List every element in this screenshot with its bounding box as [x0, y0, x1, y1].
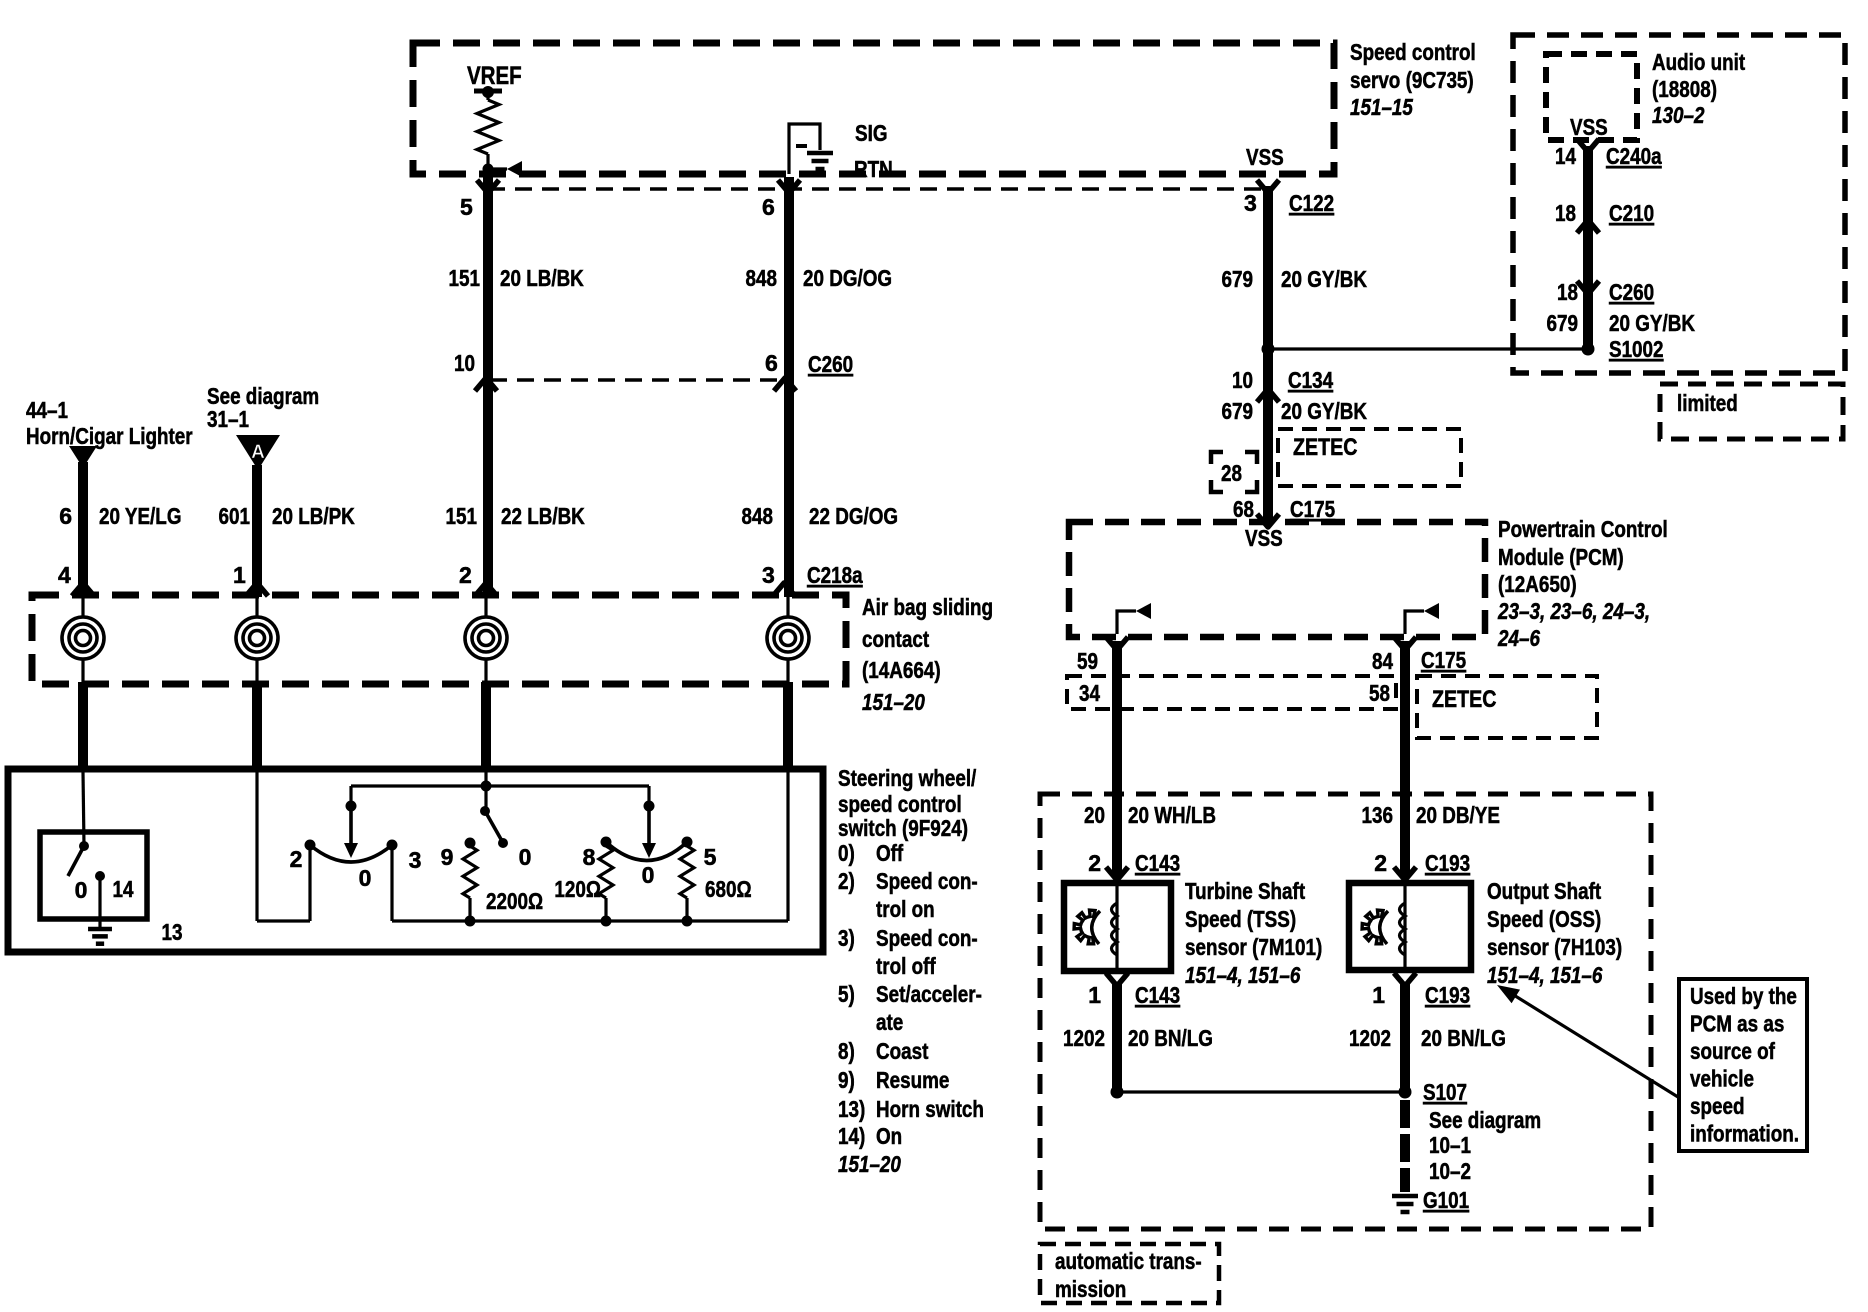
svg-text:Speed control: Speed control: [1350, 39, 1476, 65]
svg-text:1202: 1202: [1349, 1025, 1391, 1051]
svg-text:sensor (7M101): sensor (7M101): [1185, 934, 1322, 960]
svg-text:mission: mission: [1055, 1276, 1126, 1302]
svg-text:9: 9: [441, 844, 454, 870]
svg-text:A: A: [251, 442, 265, 463]
svg-text:Speed con-: Speed con-: [876, 925, 978, 951]
svg-text:vehicle: vehicle: [1690, 1066, 1754, 1092]
svg-text:1: 1: [1088, 982, 1101, 1008]
svg-text:2200Ω: 2200Ω: [486, 888, 543, 914]
svg-text:22 DG/OG: 22 DG/OG: [809, 503, 898, 529]
svg-text:23–3, 23–6, 24–3,: 23–3, 23–6, 24–3,: [1497, 598, 1650, 624]
svg-text:679: 679: [1547, 310, 1579, 336]
svg-text:(14A664): (14A664): [862, 657, 941, 683]
svg-text:C175: C175: [1290, 496, 1335, 522]
svg-text:3: 3: [1244, 190, 1257, 216]
svg-text:13: 13: [162, 919, 183, 945]
svg-text:C143: C143: [1135, 982, 1180, 1008]
svg-text:Turbine Shaft: Turbine Shaft: [1185, 878, 1305, 904]
svg-text:10–1: 10–1: [1429, 1132, 1471, 1158]
svg-text:ZETEC: ZETEC: [1432, 686, 1497, 713]
svg-text:0: 0: [642, 862, 655, 888]
svg-text:speed control: speed control: [838, 791, 962, 817]
svg-text:3: 3: [762, 562, 775, 588]
svg-text:trol off: trol off: [876, 953, 936, 979]
svg-text:22 LB/BK: 22 LB/BK: [501, 503, 585, 529]
svg-text:S1002: S1002: [1609, 336, 1664, 362]
svg-text:(12A650): (12A650): [1498, 571, 1577, 597]
svg-text:Horn/Cigar Lighter: Horn/Cigar Lighter: [26, 423, 193, 449]
svg-text:2: 2: [1088, 850, 1101, 876]
svg-text:18: 18: [1555, 200, 1576, 226]
svg-text:VREF: VREF: [467, 62, 522, 90]
svg-text:C193: C193: [1425, 850, 1470, 876]
svg-text:848: 848: [742, 503, 774, 529]
svg-text:151–4, 151–6: 151–4, 151–6: [1487, 962, 1603, 988]
svg-text:84: 84: [1372, 648, 1393, 674]
svg-text:Set/acceler-: Set/acceler-: [876, 981, 982, 1007]
svg-text:5: 5: [460, 194, 473, 220]
svg-text:151: 151: [449, 265, 481, 291]
svg-text:0: 0: [359, 865, 372, 891]
svg-text:8): 8): [838, 1038, 855, 1064]
svg-text:20 GY/BK: 20 GY/BK: [1281, 398, 1367, 424]
svg-text:13): 13): [838, 1096, 865, 1122]
svg-text:Air bag sliding: Air bag sliding: [862, 594, 993, 620]
svg-text:6: 6: [765, 350, 778, 376]
svg-text:120Ω: 120Ω: [554, 876, 601, 902]
svg-text:(18808): (18808): [1652, 76, 1717, 102]
svg-text:20 GY/BK: 20 GY/BK: [1281, 266, 1367, 292]
svg-text:679: 679: [1222, 398, 1254, 424]
svg-text:3): 3): [838, 925, 855, 951]
svg-text:5): 5): [838, 981, 855, 1007]
svg-text:0): 0): [838, 840, 855, 866]
svg-text:Used by the: Used by the: [1690, 983, 1797, 1009]
svg-text:C260: C260: [1609, 279, 1654, 305]
svg-text:20 DG/OG: 20 DG/OG: [803, 265, 892, 291]
svg-text:source of: source of: [1690, 1038, 1775, 1064]
svg-text:S107: S107: [1423, 1079, 1467, 1105]
svg-text:20 LB/PK: 20 LB/PK: [272, 503, 355, 529]
svg-text:C122: C122: [1289, 190, 1334, 216]
svg-text:31–1: 31–1: [207, 406, 249, 432]
svg-text:14: 14: [1555, 143, 1576, 169]
svg-text:10: 10: [1232, 367, 1253, 393]
svg-text:1: 1: [233, 562, 246, 588]
svg-text:On: On: [876, 1123, 902, 1149]
svg-text:switch (9F924): switch (9F924): [838, 815, 968, 841]
svg-text:44–1: 44–1: [26, 397, 68, 423]
svg-text:151–20: 151–20: [838, 1151, 901, 1177]
svg-text:servo (9C735): servo (9C735): [1350, 67, 1474, 93]
svg-text:C210: C210: [1609, 200, 1654, 226]
svg-text:trol on: trol on: [876, 896, 935, 922]
svg-text:automatic trans-: automatic trans-: [1055, 1248, 1202, 1274]
svg-text:See diagram: See diagram: [1429, 1107, 1541, 1133]
svg-text:151–4, 151–6: 151–4, 151–6: [1185, 962, 1301, 988]
svg-text:Audio unit: Audio unit: [1652, 49, 1745, 75]
svg-text:4: 4: [58, 562, 71, 588]
svg-text:limited: limited: [1677, 390, 1738, 416]
svg-text:contact: contact: [862, 626, 929, 652]
svg-text:G101: G101: [1423, 1187, 1469, 1213]
svg-text:14: 14: [113, 876, 134, 902]
svg-text:Output Shaft: Output Shaft: [1487, 878, 1601, 904]
svg-text:ate: ate: [876, 1009, 903, 1035]
svg-text:1: 1: [1372, 982, 1385, 1008]
svg-text:20: 20: [1084, 802, 1105, 828]
svg-text:20 BN/LG: 20 BN/LG: [1421, 1025, 1506, 1051]
svg-text:24–6: 24–6: [1497, 625, 1540, 651]
svg-text:59: 59: [1077, 648, 1098, 674]
svg-text:ZETEC: ZETEC: [1293, 434, 1358, 461]
svg-text:Powertrain Control: Powertrain Control: [1498, 516, 1668, 542]
svg-text:Resume: Resume: [876, 1067, 949, 1093]
svg-text:151–20: 151–20: [862, 689, 925, 715]
svg-text:C240a: C240a: [1606, 143, 1662, 169]
svg-text:Coast: Coast: [876, 1038, 929, 1064]
svg-text:34: 34: [1079, 680, 1100, 706]
svg-text:14): 14): [838, 1123, 865, 1149]
svg-text:2): 2): [838, 868, 855, 894]
svg-text:20 DB/YE: 20 DB/YE: [1416, 802, 1500, 828]
svg-text:speed: speed: [1690, 1093, 1745, 1119]
svg-text:C175: C175: [1421, 647, 1466, 673]
svg-text:2: 2: [1374, 850, 1387, 876]
svg-text:6: 6: [762, 194, 775, 220]
svg-text:136: 136: [1362, 802, 1394, 828]
svg-text:sensor (7H103): sensor (7H103): [1487, 934, 1622, 960]
svg-text:5: 5: [704, 844, 717, 870]
svg-text:SIG: SIG: [855, 120, 888, 146]
svg-text:10: 10: [454, 350, 475, 376]
svg-text:RTN: RTN: [854, 156, 893, 182]
svg-text:0: 0: [75, 877, 88, 903]
svg-text:C260: C260: [808, 351, 853, 377]
svg-text:Speed (TSS): Speed (TSS): [1185, 906, 1296, 932]
svg-text:9): 9): [838, 1067, 855, 1093]
svg-text:601: 601: [219, 503, 251, 529]
svg-text:PCM as as: PCM as as: [1690, 1011, 1784, 1037]
svg-text:2: 2: [290, 846, 303, 872]
svg-text:Speed (OSS): Speed (OSS): [1487, 906, 1601, 932]
svg-text:68: 68: [1233, 496, 1254, 522]
svg-text:3: 3: [409, 847, 422, 873]
svg-text:information.: information.: [1690, 1121, 1799, 1147]
svg-text:28: 28: [1221, 460, 1242, 486]
svg-text:C134: C134: [1288, 367, 1333, 393]
svg-text:Module (PCM): Module (PCM): [1498, 544, 1624, 570]
svg-text:Off: Off: [876, 840, 903, 866]
svg-text:Speed con-: Speed con-: [876, 868, 978, 894]
svg-text:151: 151: [446, 503, 478, 529]
svg-text:1202: 1202: [1063, 1025, 1105, 1051]
svg-text:130–2: 130–2: [1652, 102, 1705, 128]
svg-text:C193: C193: [1425, 982, 1470, 1008]
svg-text:20 BN/LG: 20 BN/LG: [1128, 1025, 1213, 1051]
svg-text:VSS: VSS: [1245, 525, 1283, 551]
svg-text:VSS: VSS: [1246, 144, 1284, 170]
svg-text:848: 848: [746, 265, 778, 291]
svg-text:680Ω: 680Ω: [705, 876, 752, 902]
svg-text:6: 6: [59, 503, 72, 529]
svg-text:C218a: C218a: [807, 562, 863, 588]
svg-text:Horn switch: Horn switch: [876, 1096, 984, 1122]
svg-text:679: 679: [1222, 266, 1254, 292]
svg-text:2: 2: [459, 562, 472, 588]
svg-text:151–15: 151–15: [1350, 94, 1414, 120]
svg-text:VSS: VSS: [1570, 114, 1608, 140]
svg-text:Steering wheel/: Steering wheel/: [838, 765, 977, 791]
svg-text:20 YE/LG: 20 YE/LG: [99, 503, 182, 529]
svg-text:20 LB/BK: 20 LB/BK: [500, 265, 584, 291]
svg-text:8: 8: [583, 844, 596, 870]
svg-text:18: 18: [1557, 279, 1578, 305]
svg-text:58: 58: [1369, 680, 1390, 706]
svg-text:C143: C143: [1135, 850, 1180, 876]
svg-text:10–2: 10–2: [1429, 1158, 1471, 1184]
svg-text:0: 0: [519, 844, 532, 870]
svg-text:20 GY/BK: 20 GY/BK: [1609, 310, 1695, 336]
svg-text:20 WH/LB: 20 WH/LB: [1128, 802, 1216, 828]
